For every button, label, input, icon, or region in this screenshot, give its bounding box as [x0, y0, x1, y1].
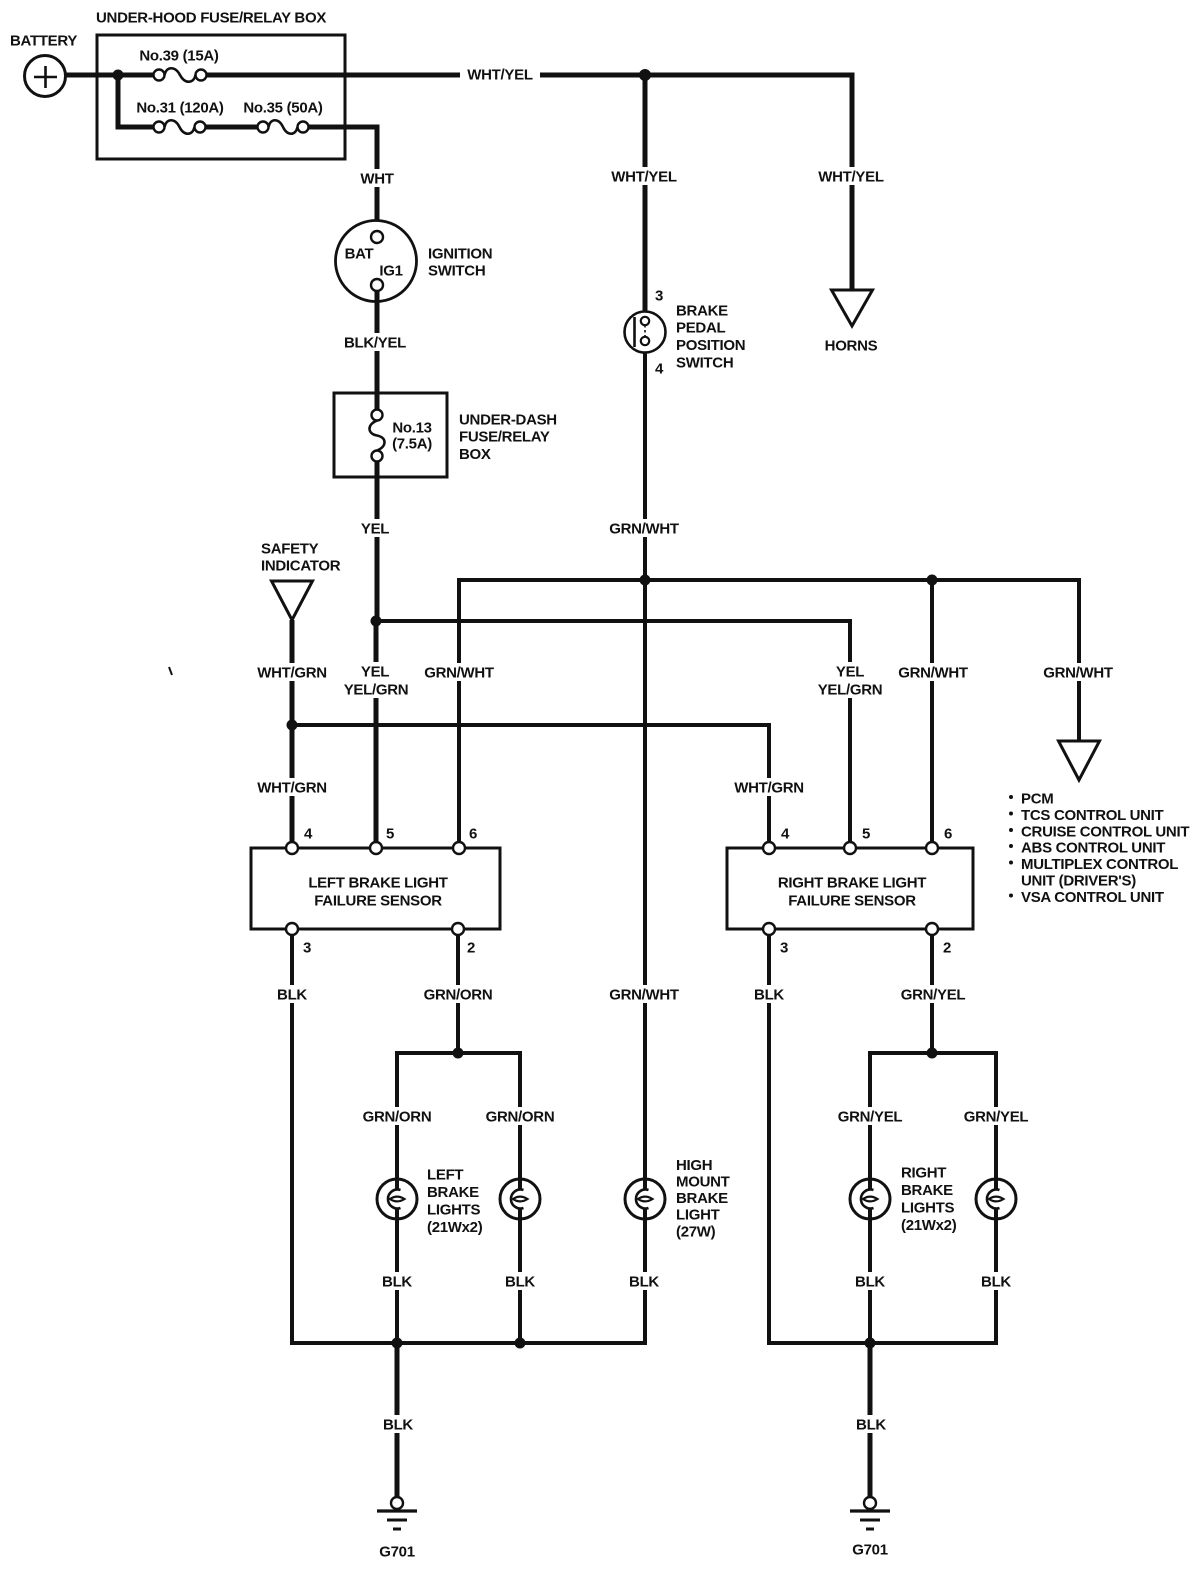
ground G701 right — [850, 1497, 890, 1529]
left sensor pin 2 — [452, 923, 464, 935]
svg-text:3: 3 — [780, 939, 788, 956]
wire safety indicator to pin 4 — [290, 620, 295, 842]
wire label YEL upper — [360, 519, 391, 537]
label right sensor caption — [778, 874, 926, 909]
fuse No.39 (15A) — [154, 68, 207, 82]
svg-text:BLK: BLK — [629, 1273, 659, 1290]
svg-text:YEL: YEL — [361, 663, 389, 680]
control units list — [1009, 790, 1189, 906]
svg-text:YEL/GRN: YEL/GRN — [344, 681, 409, 698]
wire left bulb 2 BLK down — [518, 1210, 522, 1343]
svg-text:2: 2 — [467, 939, 475, 956]
svg-text:SWITCH: SWITCH — [428, 262, 485, 279]
label left sensor caption — [308, 874, 447, 909]
wire WHT/YEL to horns — [850, 73, 855, 290]
wire junction A to horns corner — [643, 73, 855, 78]
svg-text:G701: G701 — [852, 1541, 888, 1558]
svg-text:BOX: BOX — [459, 446, 491, 463]
wire right pin 3 BLK down — [769, 935, 998, 1343]
junction left bulb tee — [453, 1048, 464, 1059]
wire label BLK bulb1 — [382, 1272, 413, 1290]
label HIGH MOUNT BRAKE LIGHT — [676, 1157, 730, 1240]
svg-text:PCM: PCM — [1021, 790, 1053, 807]
junction YEL bus — [371, 616, 382, 627]
label BRAKE PEDAL POSITION SWITCH — [676, 302, 745, 371]
svg-text:BLK/YEL: BLK/YEL — [344, 334, 406, 351]
right sensor pin 2 — [926, 923, 938, 935]
wire label YEL left mid — [360, 662, 391, 680]
wire label YEL right — [835, 662, 866, 680]
wire left pin 3 BLK down — [292, 935, 647, 1343]
wire label BLK left ground — [383, 1415, 414, 1433]
svg-text:WHT/YEL: WHT/YEL — [818, 168, 884, 185]
svg-text:5: 5 — [386, 825, 394, 842]
svg-text:BRAKE: BRAKE — [676, 1190, 728, 1207]
svg-text:UNDER-HOOD FUSE/RELAY BOX: UNDER-HOOD FUSE/RELAY BOX — [96, 9, 326, 26]
right brake light bulb 1 — [850, 1177, 890, 1221]
svg-text:INDICATOR: INDICATOR — [261, 557, 341, 574]
right brake light bulb 2 — [976, 1177, 1016, 1221]
svg-text:GRN/WHT: GRN/WHT — [609, 986, 679, 1003]
svg-text:FUSE/RELAY: FUSE/RELAY — [459, 429, 550, 446]
wire label GRN/WHT upper — [611, 519, 677, 537]
svg-text:No.13: No.13 — [392, 419, 431, 436]
left sensor pin 5 — [370, 842, 382, 854]
wire label BLK right bulb1 — [855, 1272, 886, 1290]
svg-text:3: 3 — [303, 939, 311, 956]
wire label BLK right bulb2 — [981, 1272, 1012, 1290]
svg-text:GRN/ORN: GRN/ORN — [363, 1108, 432, 1125]
svg-text:(7.5A): (7.5A) — [392, 435, 432, 452]
ground G701 left — [377, 1497, 417, 1529]
wire label GRN/WHT left branch — [426, 663, 492, 681]
svg-text:GRN/ORN: GRN/ORN — [486, 1108, 555, 1125]
wire label BLK/YEL — [342, 333, 408, 351]
label fuse No.13 value — [392, 419, 432, 452]
svg-text:PEDAL: PEDAL — [676, 320, 725, 337]
wire fuse No.39 to junction A — [207, 73, 649, 78]
ignition switch — [336, 221, 417, 302]
wire label BLK right ground — [856, 1415, 887, 1433]
wire GRN/WHT switch to high mount bulb — [643, 352, 647, 1188]
wire label GRN/ORN bulb2 — [487, 1107, 553, 1125]
wire WHT/YEL junction A to switch pin 3 — [643, 75, 648, 317]
svg-text:5: 5 — [862, 825, 870, 842]
brake pedal position switch — [625, 312, 666, 353]
svg-text:GRN/WHT: GRN/WHT — [898, 664, 968, 681]
svg-text:UNIT (DRIVER'S): UNIT (DRIVER'S) — [1021, 872, 1136, 889]
junction WHT/GRN bus — [287, 720, 298, 731]
svg-text:WHT/GRN: WHT/GRN — [734, 779, 804, 796]
svg-text:BATTERY: BATTERY — [10, 32, 77, 49]
wire right ground drop — [868, 1343, 873, 1497]
wire right bulb tee — [870, 1053, 996, 1188]
stray mark — [169, 667, 172, 675]
svg-text:FAILURE SENSOR: FAILURE SENSOR — [788, 892, 916, 909]
svg-text:UNDER-DASH: UNDER-DASH — [459, 411, 557, 428]
svg-text:RIGHT BRAKE LIGHT: RIGHT BRAKE LIGHT — [778, 874, 926, 891]
svg-text:MOUNT: MOUNT — [676, 1174, 730, 1191]
wire WHT/GRN bus to right pin 4 — [292, 725, 769, 842]
svg-text:6: 6 — [944, 825, 952, 842]
svg-text:YEL: YEL — [361, 520, 389, 537]
label RIGHT BRAKE LIGHTS — [901, 1164, 957, 1234]
svg-text:No.39 (15A): No.39 (15A) — [139, 47, 219, 64]
svg-text:GRN/WHT: GRN/WHT — [609, 520, 679, 537]
wire label WHT — [362, 169, 393, 187]
svg-text:4: 4 — [304, 825, 313, 842]
wire left bulb 1 BLK down — [395, 1210, 399, 1343]
svg-text:WHT: WHT — [360, 170, 393, 187]
wire label BLK bulb2 — [505, 1272, 536, 1290]
svg-text:WHT/GRN: WHT/GRN — [257, 664, 327, 681]
wire label YEL/GRN right — [817, 680, 883, 698]
wire left ground drop — [395, 1343, 400, 1497]
svg-text:SWITCH: SWITCH — [676, 354, 733, 371]
left brake light bulb 2 — [500, 1177, 540, 1221]
wire high mount BLK down — [643, 1210, 647, 1343]
wire battery to fuse No.39 — [65, 73, 154, 78]
svg-text:IGNITION: IGNITION — [428, 245, 492, 262]
label SAFETY INDICATOR — [261, 540, 341, 574]
svg-text:VSA CONTROL UNIT: VSA CONTROL UNIT — [1021, 889, 1164, 906]
right sensor pin 5 — [844, 842, 856, 854]
svg-text:LEFT BRAKE LIGHT: LEFT BRAKE LIGHT — [308, 874, 447, 891]
wire YEL fuse No.13 down to pin 5 — [376, 461, 377, 842]
svg-text:ABS CONTROL UNIT: ABS CONTROL UNIT — [1021, 839, 1165, 856]
wire label GRN/YEL bulb1 — [837, 1107, 903, 1125]
wire label GRN/YEL bulb2 — [963, 1107, 1029, 1125]
wire right bulb 2 BLK down — [994, 1210, 998, 1343]
label LEFT BRAKE LIGHTS — [427, 1166, 483, 1236]
svg-text:SAFETY: SAFETY — [261, 540, 319, 557]
wire label WHT/GRN upper — [259, 663, 325, 681]
svg-text:BLK: BLK — [382, 1273, 412, 1290]
junction left ground bus 2 — [515, 1338, 526, 1349]
wire label GRN/ORN bulb1 — [364, 1107, 430, 1125]
svg-text:BRAKE: BRAKE — [676, 302, 728, 319]
wire right bulb 1 BLK down — [868, 1210, 872, 1343]
svg-text:TCS CONTROL UNIT: TCS CONTROL UNIT — [1021, 807, 1164, 824]
svg-text:3: 3 — [655, 287, 663, 304]
wire right pin 2 GRN/YEL down — [930, 935, 934, 1053]
svg-text:LEFT: LEFT — [427, 1166, 463, 1183]
wire label WHT/YEL top — [460, 65, 540, 83]
fuse No.13 (7.5A) — [370, 410, 385, 462]
junction right bulb tee — [927, 1048, 938, 1059]
wire label BLK high mount — [629, 1272, 660, 1290]
svg-text:No.31 (120A): No.31 (120A) — [136, 99, 224, 116]
safety indicator connector — [272, 581, 313, 620]
svg-text:2: 2 — [943, 939, 951, 956]
high mount brake light bulb — [625, 1177, 665, 1221]
wire label WHT/YEL middle — [611, 167, 677, 185]
left brake light bulb 1 — [377, 1177, 417, 1221]
svg-text:GRN/ORN: GRN/ORN — [424, 986, 493, 1003]
svg-text:YEL: YEL — [836, 663, 864, 680]
right brake light failure sensor — [727, 848, 973, 929]
junction right ground bus — [865, 1338, 876, 1349]
wire label GRN/ORN stem — [425, 985, 491, 1003]
wire fuse No.31 to fuse No.35 — [195, 125, 258, 130]
junction GRN/WHT bus at right sensor — [927, 575, 938, 586]
right sensor pin 6 — [926, 842, 938, 854]
under-dash fuse/relay box — [334, 393, 447, 477]
wire GRN/WHT bus — [459, 580, 1079, 842]
svg-text:BRAKE: BRAKE — [901, 1182, 953, 1199]
junction A top WHT/YEL — [639, 69, 651, 81]
left sensor pin 3 — [286, 923, 298, 935]
wire fuse No.35 to WHT drop — [309, 127, 378, 232]
wire IG1 to under-dash fuse — [375, 291, 380, 410]
wire branch battery down — [118, 75, 154, 127]
svg-text:GRN/YEL: GRN/YEL — [901, 986, 966, 1003]
svg-text:CRUISE CONTROL UNIT: CRUISE CONTROL UNIT — [1021, 823, 1189, 840]
svg-text:(21Wx2): (21Wx2) — [901, 1217, 957, 1234]
svg-text:GRN/YEL: GRN/YEL — [964, 1108, 1029, 1125]
right sensor pin 4 — [763, 842, 775, 854]
wire label WHT/YEL horns — [818, 167, 884, 185]
wire left bulb tee — [397, 1053, 520, 1188]
svg-text:BLK: BLK — [856, 1416, 886, 1433]
left brake light failure sensor — [251, 848, 500, 929]
left sensor pin 6 — [453, 842, 465, 854]
svg-text:BLK: BLK — [505, 1273, 535, 1290]
wire label GRN/WHT right branch — [900, 663, 966, 681]
svg-text:LIGHTS: LIGHTS — [901, 1200, 954, 1217]
wire label GRN/YEL stem — [900, 985, 966, 1003]
svg-text:GRN/WHT: GRN/WHT — [424, 664, 494, 681]
svg-text:BLK: BLK — [981, 1273, 1011, 1290]
under-hood fuse/relay box — [97, 35, 345, 159]
svg-text:G701: G701 — [379, 1543, 415, 1560]
svg-text:BLK: BLK — [383, 1416, 413, 1433]
svg-text:LIGHT: LIGHT — [676, 1207, 720, 1224]
svg-text:HIGH: HIGH — [676, 1157, 712, 1174]
label IGNITION SWITCH — [428, 245, 492, 279]
wire label GRN/WHT high mount — [611, 985, 677, 1003]
svg-text:4: 4 — [655, 360, 664, 377]
svg-text:GRN/YEL: GRN/YEL — [838, 1108, 903, 1125]
junction battery branch — [113, 70, 124, 81]
wire label BLK right pin3 — [754, 985, 785, 1003]
svg-text:HORNS: HORNS — [825, 337, 878, 354]
battery positive terminal — [25, 56, 66, 97]
svg-text:BLK: BLK — [855, 1273, 885, 1290]
svg-text:RIGHT: RIGHT — [901, 1164, 946, 1181]
svg-text:BLK: BLK — [754, 986, 784, 1003]
wire left pin 2 GRN/ORN down — [456, 935, 460, 1053]
left sensor pin 4 — [286, 842, 298, 854]
svg-text:BLK: BLK — [277, 986, 307, 1003]
svg-text:BRAKE: BRAKE — [427, 1184, 479, 1201]
wire label GRN/WHT far right — [1045, 663, 1111, 681]
wire label BLK left pin3 — [277, 985, 308, 1003]
label UNDER-DASH FUSE/RELAY BOX — [459, 411, 557, 462]
svg-text:POSITION: POSITION — [676, 337, 745, 354]
fuse No.31 (120A) — [154, 120, 206, 134]
svg-text:4: 4 — [781, 825, 790, 842]
wire label YEL/GRN left — [343, 680, 409, 698]
control units connector — [1059, 741, 1100, 780]
junction GRN/WHT bus at switch column — [640, 575, 651, 586]
svg-text:WHT/YEL: WHT/YEL — [611, 168, 677, 185]
svg-text:(21Wx2): (21Wx2) — [427, 1219, 483, 1236]
wire label WHT/GRN right — [736, 778, 802, 796]
svg-text:IG1: IG1 — [379, 262, 402, 279]
right sensor pin 3 — [763, 923, 775, 935]
svg-text:(27W): (27W) — [676, 1223, 716, 1240]
svg-text:WHT/YEL: WHT/YEL — [467, 66, 533, 83]
svg-text:LIGHTS: LIGHTS — [427, 1202, 480, 1219]
junction left ground bus 1 — [392, 1338, 403, 1349]
svg-text:MULTIPLEX CONTROL: MULTIPLEX CONTROL — [1021, 856, 1178, 873]
svg-text:6: 6 — [469, 825, 477, 842]
wire YEL bus to right pin 5 — [376, 621, 850, 842]
wire GRN/WHT bus drop to right pin 6 — [930, 580, 934, 842]
svg-text:BAT: BAT — [345, 245, 374, 262]
svg-text:YEL/GRN: YEL/GRN — [818, 681, 883, 698]
svg-text:WHT/GRN: WHT/GRN — [257, 779, 327, 796]
fuse No.35 (50A) — [258, 120, 309, 134]
svg-text:No.35 (50A): No.35 (50A) — [243, 99, 323, 116]
horns connector — [832, 290, 873, 326]
wire label WHT/GRN lower — [259, 778, 325, 796]
svg-text:FAILURE SENSOR: FAILURE SENSOR — [314, 892, 442, 909]
svg-text:GRN/WHT: GRN/WHT — [1043, 664, 1113, 681]
